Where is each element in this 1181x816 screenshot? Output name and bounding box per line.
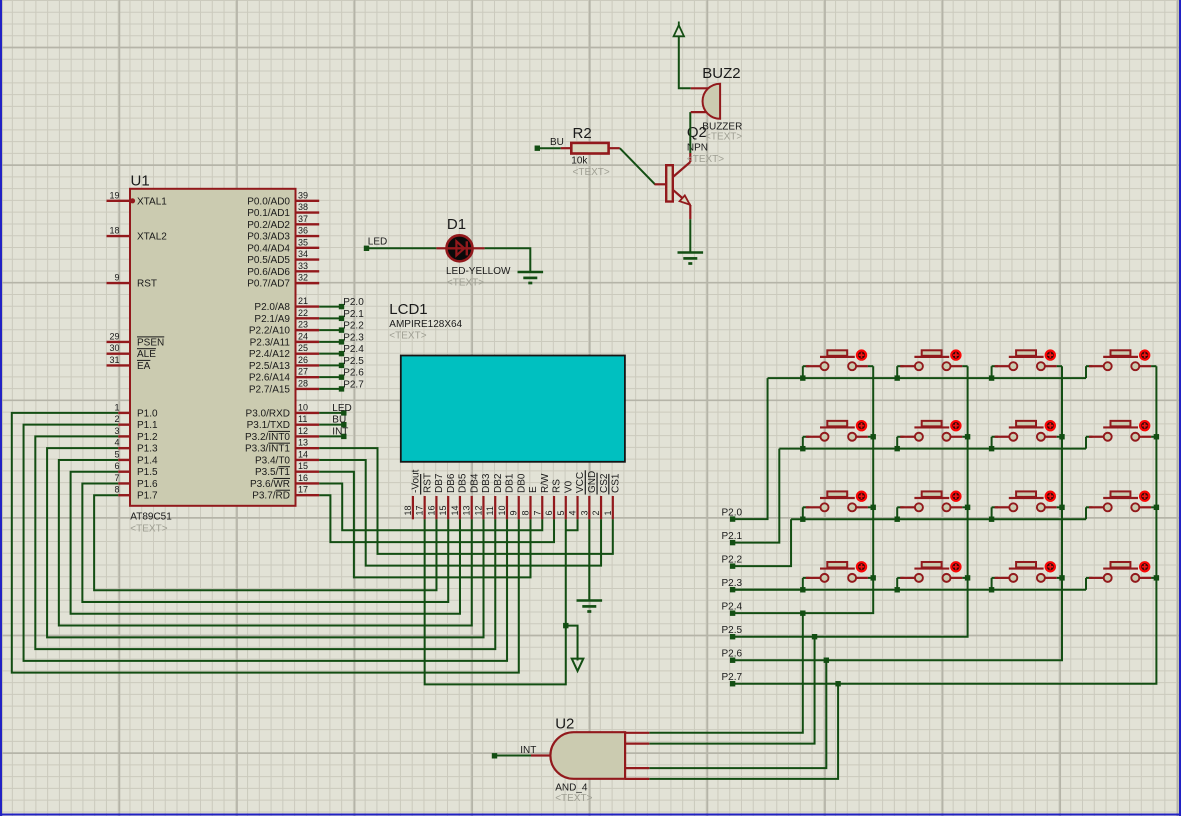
svg-text:P2.6: P2.6 — [343, 368, 364, 379]
buzzer BUZ2 — [691, 87, 709, 89]
svg-text:18: 18 — [403, 505, 413, 515]
svg-text:2: 2 — [114, 414, 119, 424]
svg-text:AMPIRE128X64: AMPIRE128X64 — [389, 319, 462, 330]
svg-text:12: 12 — [473, 505, 483, 515]
svg-text:P2.2: P2.2 — [343, 321, 364, 332]
svg-text:28: 28 — [298, 378, 308, 388]
U2 input pin 1 — [625, 732, 649, 734]
svg-text:P2.3/A11: P2.3/A11 — [250, 337, 291, 348]
terminal node LED — [341, 410, 346, 415]
wire U1 pin 24 to net P2.3 — [319, 341, 341, 343]
svg-text:29: 29 — [109, 331, 119, 341]
svg-text:37: 37 — [298, 214, 308, 224]
wire button r3c1 left leg to row bus — [802, 507, 804, 519]
svg-text:22: 22 — [298, 308, 308, 318]
power symbol down arrow — [572, 659, 584, 671]
svg-text:27: 27 — [298, 367, 308, 377]
svg-text:P2.5: P2.5 — [343, 356, 364, 367]
LCD1 pin 18 -Vout — [412, 496, 414, 519]
junction column bus 3 row 4 — [1059, 575, 1064, 580]
LCD1 screen body — [401, 356, 625, 462]
svg-text:RST: RST — [137, 279, 157, 290]
svg-text:<TEXT>: <TEXT> — [555, 793, 592, 804]
push button keypad row 3 col 4 — [1086, 491, 1156, 511]
wire net P2.4 terminal — [733, 612, 803, 614]
terminal node P2.4 — [339, 351, 344, 356]
svg-text:<TEXT>: <TEXT> — [687, 154, 724, 165]
U1 right pin 38 — [296, 211, 320, 213]
svg-text:P0.5/AD5: P0.5/AD5 — [247, 255, 290, 266]
push button keypad row 4 col 4 — [1086, 562, 1156, 582]
svg-text:<TEXT>: <TEXT> — [130, 524, 167, 535]
wire U1 pin 25 to net P2.4 — [319, 353, 341, 355]
keypad column bus 3 — [826, 366, 1062, 660]
svg-text:LCD1: LCD1 — [389, 301, 427, 318]
push button keypad row 3 col 3 — [992, 491, 1062, 511]
U2 output pin — [531, 754, 552, 756]
LED D1 — [436, 247, 447, 249]
wire button r2c3 left leg to row bus — [991, 437, 993, 449]
LCD1 pin 12 DB3 — [482, 496, 484, 519]
svg-text:9: 9 — [114, 273, 119, 283]
U1 right pin 21 — [296, 305, 320, 307]
svg-text:11: 11 — [485, 506, 495, 515]
svg-text:P0.1/AD1: P0.1/AD1 — [247, 208, 290, 219]
wire button r3c4 left leg to row bus — [1085, 507, 1087, 519]
U1 left pin 31 — [107, 364, 131, 366]
wire button r1c1 left leg to row bus — [802, 366, 804, 378]
junction row bus 4 col 2 — [895, 587, 900, 592]
resistor R2 — [561, 147, 572, 149]
wire button r4c4 left leg to row bus — [1085, 578, 1087, 590]
U1 XTAL1 clock dot — [130, 198, 135, 203]
svg-text:P3.5/T1: P3.5/T1 — [255, 467, 290, 478]
LCD1 pin 16 DB7 — [435, 496, 437, 519]
LCD1 pin 17 RST — [424, 496, 426, 519]
U1 right pin 34 — [296, 258, 320, 260]
junction column bus 4 row 4 — [1154, 575, 1159, 580]
junction on V0 net — [563, 623, 568, 628]
svg-text:<TEXT>: <TEXT> — [705, 132, 742, 143]
wire net P2.1 to row bus 2 — [733, 449, 780, 543]
ground symbol below Q2 — [678, 251, 704, 254]
transistor Q2 NPN — [655, 183, 667, 185]
junction row bus 2 col 1 — [800, 446, 805, 451]
svg-text:-Vout: -Vout — [411, 469, 422, 493]
svg-text:30: 30 — [109, 343, 119, 353]
U1 right pin 23 — [296, 329, 320, 331]
push button keypad row 3 col 2 — [897, 491, 967, 511]
wire button r3c2 left leg to row bus — [896, 507, 898, 519]
wire net P2.6 terminal — [733, 659, 827, 661]
svg-text:P3.3/INT1: P3.3/INT1 — [245, 444, 290, 455]
svg-text:DB1: DB1 — [505, 473, 516, 493]
svg-text:<TEXT>: <TEXT> — [447, 278, 484, 289]
svg-text:P2.2: P2.2 — [722, 555, 743, 566]
svg-text:R/W: R/W — [540, 473, 551, 493]
push button keypad row 2 col 2 — [897, 421, 967, 441]
junction column bus 3 row 3 — [1059, 505, 1064, 510]
wire U1 pin 26 to net P2.5 — [319, 364, 341, 366]
wire net LED terminal to D1 anode — [364, 246, 369, 251]
push button keypad row 2 col 4 — [1086, 421, 1156, 441]
svg-text:P3.0/RXD: P3.0/RXD — [246, 408, 290, 419]
U1 right pin 27 — [296, 376, 320, 378]
U1 left pin 8 — [118, 494, 130, 496]
svg-text:P3.6/WR: P3.6/WR — [250, 479, 290, 490]
svg-text:10k: 10k — [571, 156, 588, 167]
wire R2 to Q2 base (diagonal) — [620, 148, 655, 184]
svg-text:3: 3 — [579, 510, 589, 515]
terminal node P2.5 keypad side — [730, 634, 735, 639]
svg-text:P1.0: P1.0 — [137, 408, 158, 419]
svg-text:P2.6: P2.6 — [722, 649, 743, 660]
wire column 4 to U2 input 4 — [649, 684, 838, 779]
svg-text:P1.3: P1.3 — [137, 444, 158, 455]
U1 right pin 35 — [296, 247, 320, 249]
junction column bus 1 row 3 — [871, 505, 876, 510]
ground symbol below LCD — [577, 599, 603, 602]
wire column 2 to U2 input 2 — [649, 637, 814, 744]
push button keypad row 1 col 1 — [803, 350, 873, 370]
junction P2.5 column 2 — [812, 634, 817, 639]
wire net P2.5 terminal — [733, 636, 815, 638]
svg-text:P0.0/AD0: P0.0/AD0 — [247, 196, 290, 207]
wire button r4c3 left leg to row bus — [991, 578, 993, 590]
svg-text:LED-YELLOW: LED-YELLOW — [446, 266, 511, 277]
keypad row bus 4 — [733, 589, 1086, 591]
push button keypad row 2 col 3 — [992, 421, 1062, 441]
junction P2.7 column 4 — [835, 681, 840, 686]
svg-text:PSEN: PSEN — [137, 337, 164, 348]
junction row bus 4 col 3 — [989, 587, 994, 592]
push button keypad row 2 col 1 — [803, 421, 873, 441]
U1 right pin 25 — [296, 352, 320, 354]
svg-text:P2.4: P2.4 — [722, 602, 743, 613]
svg-text:6: 6 — [114, 461, 119, 471]
push button keypad row 3 col 1 — [803, 491, 873, 511]
svg-text:P1.1: P1.1 — [137, 420, 158, 431]
svg-text:16: 16 — [426, 505, 436, 515]
LCD1 pin 14 DB5 — [459, 496, 461, 519]
keypad column bus 1 — [803, 366, 873, 613]
svg-text:P1.7: P1.7 — [137, 491, 158, 502]
svg-text:AND_4: AND_4 — [555, 782, 588, 793]
svg-text:17: 17 — [415, 505, 425, 515]
LCD1 pin 11 DB2 — [494, 496, 496, 519]
terminal node BU — [341, 422, 346, 427]
junction row bus 3 col 3 — [989, 517, 994, 522]
svg-text:DB5: DB5 — [458, 473, 469, 493]
svg-text:DB4: DB4 — [469, 473, 480, 493]
junction column bus 4 row 2 — [1154, 434, 1159, 439]
terminal node P2.3 — [339, 339, 344, 344]
svg-text:XTAL1: XTAL1 — [137, 196, 167, 207]
svg-text:P2.4/A12: P2.4/A12 — [249, 349, 291, 360]
junction column bus 1 row 2 — [871, 434, 876, 439]
svg-text:35: 35 — [298, 237, 308, 247]
svg-text:U1: U1 — [131, 173, 150, 190]
wire net P1.3 U1 pin 4 to LCD DB3 — [47, 448, 483, 637]
svg-text:V0: V0 — [563, 480, 574, 493]
svg-text:DB7: DB7 — [434, 473, 445, 493]
U1 left pin 9 — [107, 282, 131, 284]
junction row bus 2 col 3 — [989, 446, 994, 451]
svg-text:4: 4 — [114, 438, 119, 448]
svg-text:14: 14 — [450, 505, 460, 515]
svg-text:P0.3/AD3: P0.3/AD3 — [247, 232, 290, 243]
junction row bus 1 col 3 — [989, 375, 994, 380]
svg-text:BUZ2: BUZ2 — [702, 65, 740, 82]
wire net INT to U2 output — [495, 755, 532, 757]
svg-text:DB0: DB0 — [516, 473, 527, 493]
U1 left pin 5 — [118, 459, 130, 461]
svg-text:2: 2 — [591, 510, 601, 515]
terminal node P2.1 keypad side — [730, 540, 735, 545]
push button keypad row 4 col 1 — [803, 562, 873, 582]
svg-text:32: 32 — [298, 273, 308, 283]
svg-text:P0.7/AD7: P0.7/AD7 — [247, 279, 290, 290]
wire U1 pin 21 to net P2.0 — [319, 306, 341, 308]
wire net P1.0 U1 pin 1 to LCD DB0 — [12, 413, 519, 673]
svg-text:P2.3: P2.3 — [722, 578, 743, 589]
svg-text:P2.5/A13: P2.5/A13 — [249, 361, 291, 372]
svg-text:P2.7: P2.7 — [343, 379, 364, 390]
svg-text:10: 10 — [298, 402, 308, 412]
wire LCD VCC jog to V0 net — [566, 519, 578, 530]
wire P3.7 to LCD RS — [319, 495, 554, 542]
terminal node P2.6 — [339, 374, 344, 379]
U1 right pin 39 — [296, 200, 320, 202]
LCD1 pin 1 CS1 — [612, 496, 614, 519]
svg-text:9: 9 — [509, 510, 519, 515]
U1 right pin 16 — [296, 482, 320, 484]
wire U1 to net INT — [319, 435, 344, 437]
svg-text:GND: GND — [587, 471, 598, 493]
svg-text:RS: RS — [552, 479, 563, 493]
U2 input pin 2 — [625, 742, 649, 744]
terminal node P2.4 keypad side — [730, 610, 735, 615]
wire button r2c2 left leg to row bus — [896, 437, 898, 449]
svg-text:38: 38 — [298, 202, 308, 212]
svg-text:33: 33 — [298, 261, 308, 271]
wire net P1.6 U1 pin 7 to LCD DB6 — [82, 483, 448, 602]
U1 right pin 11 — [296, 423, 320, 425]
svg-text:BU: BU — [332, 415, 346, 426]
wire P3.6 to LCD R/W — [319, 483, 542, 530]
svg-text:24: 24 — [298, 331, 308, 341]
wire U1 pin 28 to net P2.7 — [319, 388, 341, 390]
push button keypad row 1 col 3 — [992, 350, 1062, 370]
U2 input pin 3 — [625, 767, 649, 769]
U1 left pin 2 — [118, 423, 130, 425]
LCD1 pin 4 VCC — [576, 496, 578, 519]
wire net P2.3 to row bus 4 — [733, 589, 803, 591]
svg-text:P3.2/INT0: P3.2/INT0 — [245, 432, 290, 443]
LCD1 pin 10 DB1 — [506, 496, 508, 519]
U1 left pin 1 — [118, 412, 130, 414]
svg-text:R2: R2 — [573, 125, 592, 142]
svg-text:3: 3 — [114, 426, 119, 436]
svg-text:7: 7 — [532, 510, 542, 515]
svg-text:P2.6/A14: P2.6/A14 — [249, 373, 291, 384]
wire net P2.7 terminal — [733, 683, 838, 685]
wire net P2.2 to row bus 3 — [733, 519, 791, 566]
wire LCD RST to LCD V0 bottom run — [425, 519, 566, 684]
junction P2.4 column 1 — [800, 610, 805, 615]
LCD1 pin 3 GND — [588, 496, 590, 519]
wire button r1c3 left leg to row bus — [991, 366, 993, 378]
wire U1 to net LED — [319, 412, 344, 414]
svg-text:P0.2/AD2: P0.2/AD2 — [247, 220, 290, 231]
wire column 1 to U2 input 1 — [649, 613, 803, 733]
terminal node INT at U2 — [492, 753, 497, 758]
wire P3.3 to LCD CS1 — [319, 448, 613, 554]
U1 left pin 30 — [107, 353, 131, 355]
wire Q2 emitter to ground — [689, 219, 691, 252]
wire Q2 collector to buzzer — [689, 112, 691, 153]
terminal node P2.0 keypad side — [730, 516, 735, 521]
junction column bus 3 row 2 — [1059, 434, 1064, 439]
svg-text:<TEXT>: <TEXT> — [389, 331, 426, 342]
svg-text:18: 18 — [109, 226, 119, 236]
svg-text:P2.1: P2.1 — [722, 531, 743, 542]
wire U1 pin 22 to net P2.1 — [319, 317, 341, 319]
svg-text:11: 11 — [298, 414, 307, 424]
terminal node P2.5 — [339, 363, 344, 368]
junction column bus 4 row 3 — [1154, 505, 1159, 510]
keypad row bus 3 — [791, 518, 1086, 520]
wire P3.5 to LCD E — [319, 472, 530, 578]
svg-text:D1: D1 — [447, 216, 466, 233]
svg-text:DB2: DB2 — [493, 473, 504, 493]
keypad row bus 1 — [768, 377, 1086, 379]
junction row bus 3 col 2 — [895, 517, 900, 522]
LCD1 pin 2 CS2 — [600, 496, 602, 519]
wire U1 pin 23 to net P2.2 — [319, 329, 341, 331]
terminal node P2.2 — [339, 327, 344, 332]
svg-text:17: 17 — [298, 485, 308, 495]
svg-text:<TEXT>: <TEXT> — [573, 167, 610, 178]
U1 right pin 13 — [296, 447, 320, 449]
svg-text:P2.2/A10: P2.2/A10 — [249, 326, 291, 337]
LCD1 pin 5 V0 — [565, 496, 567, 519]
svg-text:EA: EA — [137, 361, 151, 372]
ground symbol below D1 — [518, 271, 544, 274]
junction column bus 2 row 4 — [965, 575, 970, 580]
svg-text:AT89C51: AT89C51 — [130, 512, 172, 523]
U1 right pin 14 — [296, 459, 320, 461]
wire button r4c2 left leg to row bus — [896, 578, 898, 590]
LCD1 pin 9 DB0 — [518, 496, 520, 519]
U1 left pin 7 — [118, 482, 130, 484]
push button keypad row 1 col 2 — [897, 350, 967, 370]
LCD1 pin 15 DB6 — [447, 496, 449, 519]
U1 left pin 3 — [118, 435, 130, 437]
svg-text:8: 8 — [521, 510, 531, 515]
svg-text:19: 19 — [109, 190, 119, 200]
keypad row bus 2 — [779, 448, 1086, 450]
svg-text:10: 10 — [497, 505, 507, 515]
U1 right pin 10 — [296, 412, 320, 414]
wire net P1.1 U1 pin 2 to LCD DB1 — [24, 425, 507, 661]
keypad column bus 2 — [815, 366, 968, 637]
svg-text:P2.5: P2.5 — [722, 625, 743, 636]
U1 left pin 6 — [118, 471, 130, 473]
U1 right pin 32 — [296, 282, 320, 284]
junction column bus 2 row 3 — [965, 505, 970, 510]
U1 right pin 36 — [296, 235, 320, 237]
svg-text:P3.7/RD: P3.7/RD — [252, 491, 290, 502]
svg-text:P1.5: P1.5 — [137, 467, 158, 478]
svg-text:39: 39 — [298, 190, 308, 200]
wire P3.4 to LCD CS2 — [319, 460, 601, 566]
svg-text:P0.4/AD4: P0.4/AD4 — [247, 243, 290, 254]
svg-text:6: 6 — [544, 510, 554, 515]
junction row bus 3 col 1 — [800, 517, 805, 522]
svg-text:E: E — [528, 486, 539, 493]
svg-text:P2.4: P2.4 — [343, 344, 364, 355]
push button keypad row 4 col 3 — [992, 562, 1062, 582]
power symbol up arrow — [674, 25, 684, 36]
svg-text:U2: U2 — [555, 715, 574, 732]
wire button r2c1 left leg to row bus — [802, 437, 804, 449]
terminal node INT — [341, 434, 346, 439]
svg-text:DB3: DB3 — [481, 473, 492, 493]
svg-text:7: 7 — [114, 473, 119, 483]
U1 right pin 12 — [296, 435, 320, 437]
svg-text:LED: LED — [368, 237, 387, 248]
junction row bus 1 col 2 — [895, 375, 900, 380]
wire U1 pin 27 to net P2.6 — [319, 376, 341, 378]
svg-text:P2.0/A8: P2.0/A8 — [254, 302, 290, 313]
U1 right pin 33 — [296, 270, 320, 272]
wire net P1.7 U1 pin 8 to LCD DB7 — [94, 495, 436, 590]
junction row bus 4 col 1 — [800, 587, 805, 592]
svg-text:CS2: CS2 — [599, 473, 610, 493]
U1 left pin 18 — [107, 235, 131, 237]
svg-text:12: 12 — [298, 426, 308, 436]
svg-text:23: 23 — [298, 320, 308, 330]
push button keypad row 1 col 4 — [1086, 350, 1156, 370]
svg-text:5: 5 — [114, 449, 119, 459]
svg-text:8: 8 — [114, 485, 119, 495]
LCD1 pin 13 DB4 — [471, 496, 473, 519]
keypad column bus 4 — [838, 366, 1156, 684]
svg-text:RST: RST — [422, 473, 433, 493]
LCD1 pin 8 E — [529, 496, 531, 519]
svg-text:P2.0: P2.0 — [722, 508, 743, 519]
wire U1 to net BU — [319, 424, 344, 426]
svg-text:31: 31 — [109, 355, 119, 365]
svg-text:INT: INT — [520, 745, 536, 756]
wire button r1c4 left leg to row bus — [1085, 366, 1087, 378]
U1 right pin 17 — [296, 494, 320, 496]
wire button r1c2 left leg to row bus — [896, 366, 898, 378]
U2 input pin 4 — [625, 778, 649, 780]
junction P2.6 column 3 — [824, 658, 829, 663]
U1 right pin 24 — [296, 341, 320, 343]
U1 left pin 19 — [107, 200, 131, 202]
svg-text:P0.6/AD6: P0.6/AD6 — [247, 267, 290, 278]
terminal node P2.7 — [339, 386, 344, 391]
U1 right pin 22 — [296, 317, 320, 319]
U1 right pin 26 — [296, 364, 320, 366]
svg-text:LED: LED — [332, 403, 351, 414]
wire button r4c1 left leg to row bus — [802, 578, 804, 590]
svg-text:26: 26 — [298, 355, 308, 365]
svg-text:CS1: CS1 — [611, 473, 622, 493]
